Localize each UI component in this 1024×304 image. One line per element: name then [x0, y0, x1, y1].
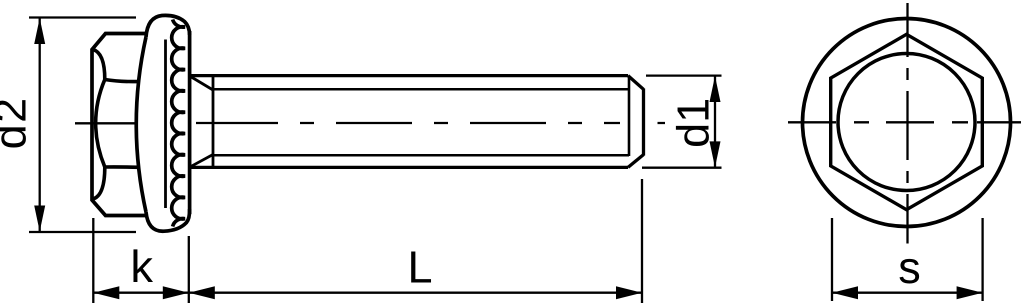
L left arrowhead	[189, 286, 215, 299]
k right extension line	[188, 236, 190, 303]
tip end edge	[642, 89, 645, 156]
end view vertical centerline	[906, 3, 908, 244]
k dimension line	[93, 292, 189, 294]
s right arrowhead	[957, 286, 983, 299]
end view chamfer circle	[838, 54, 975, 191]
flange bottom cap	[146, 209, 190, 231]
thread start chamfer top slant	[191, 77, 214, 91]
L dimension line	[189, 292, 642, 294]
hex head middle facet arc	[96, 80, 105, 168]
end view outer circle (flange OD)	[803, 19, 1011, 227]
flange bearing edge (vertical)	[188, 31, 192, 214]
end view hexagon	[831, 34, 983, 209]
label k	[133, 249, 153, 282]
d1 top extension line	[646, 74, 722, 76]
L right arrowhead	[616, 286, 642, 299]
k left arrowhead	[93, 286, 119, 299]
flange top cap	[146, 15, 190, 37]
flange serrations (left-bulging scallops)	[172, 20, 185, 227]
d1 top arrowhead	[710, 76, 721, 102]
flange face line	[164, 40, 167, 209]
s left arrowhead	[832, 286, 858, 299]
thread runout line near head	[212, 76, 215, 168]
d1 bottom extension line	[642, 167, 722, 169]
hex head side view outline	[92, 34, 146, 216]
d2 bottom extension line	[29, 231, 136, 233]
hex head top facet line	[105, 80, 139, 82]
d2 bottom arrowhead	[34, 206, 45, 232]
k right arrowhead	[163, 286, 189, 299]
hex head bottom facet chamfer arc	[93, 167, 105, 199]
label d1	[676, 100, 709, 146]
label L	[411, 252, 431, 283]
d1 dimension line	[714, 76, 716, 167]
d2 top extension line	[29, 16, 136, 18]
tip thread runout line	[628, 76, 631, 156]
tip chamfer top slant	[628, 76, 644, 90]
tip chamfer bottom slant	[628, 155, 644, 168]
end view horizontal centerline	[788, 121, 1021, 123]
centerline through head	[75, 122, 136, 124]
d1 bottom arrowhead	[710, 141, 721, 167]
label s	[900, 259, 920, 284]
shank outer top line (major diameter)	[190, 74, 628, 77]
d2 dimension line	[39, 18, 41, 232]
s dimension line	[832, 292, 983, 294]
s right extension line	[981, 218, 983, 301]
k left extension line	[92, 218, 94, 303]
thread minor top line	[213, 88, 629, 91]
shank centerline (dash-dot)	[196, 122, 665, 124]
L right extension line	[641, 179, 643, 303]
shank outer bottom line (major diameter)	[190, 166, 628, 169]
d2 top arrowhead	[34, 18, 45, 44]
thread start chamfer bottom slant	[191, 155, 214, 167]
hex head bottom facet line	[105, 165, 139, 169]
label d2	[0, 100, 26, 147]
thread minor bottom line	[213, 154, 629, 157]
flange left profile arc	[136, 37, 146, 212]
hex head top facet chamfer arc	[93, 50, 105, 80]
s left extension line	[831, 218, 833, 301]
